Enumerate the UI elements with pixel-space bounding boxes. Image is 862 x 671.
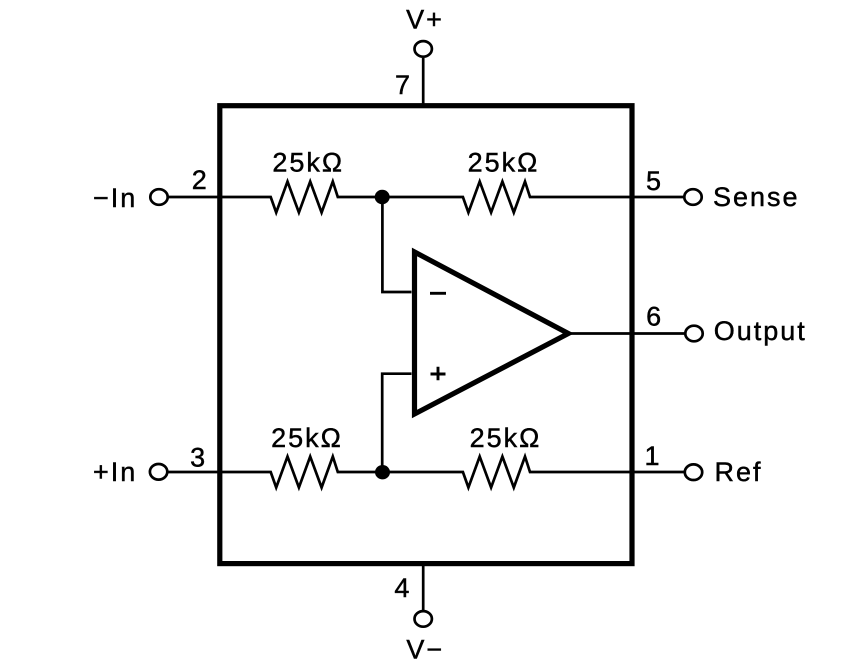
svg-text:3: 3 <box>190 442 205 472</box>
svg-text:5: 5 <box>646 166 661 196</box>
svg-text:1: 1 <box>644 441 659 471</box>
svg-text:+In: +In <box>93 457 137 487</box>
svg-text:2: 2 <box>192 165 207 195</box>
svg-text:7: 7 <box>395 70 410 100</box>
svg-text:−In: −In <box>93 183 137 213</box>
svg-text:25kΩ: 25kΩ <box>470 423 542 453</box>
svg-text:V+: V+ <box>406 5 444 35</box>
svg-text:4: 4 <box>394 573 409 603</box>
svg-text:Ref: Ref <box>715 457 763 487</box>
svg-text:V−: V− <box>406 635 444 665</box>
svg-text:6: 6 <box>646 302 661 332</box>
svg-text:25kΩ: 25kΩ <box>272 147 344 177</box>
svg-text:25kΩ: 25kΩ <box>468 147 540 177</box>
svg-text:Output: Output <box>714 316 807 346</box>
svg-text:25kΩ: 25kΩ <box>271 423 343 453</box>
svg-text:Sense: Sense <box>713 182 800 212</box>
